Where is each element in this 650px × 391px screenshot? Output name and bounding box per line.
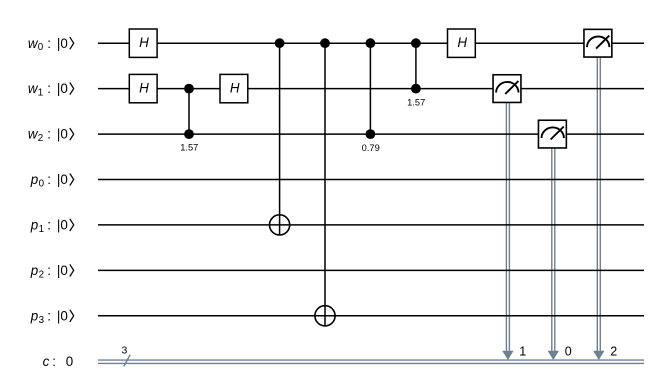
svg-text::: : xyxy=(52,354,56,369)
qubit wire p3 xyxy=(98,315,644,317)
label w0 : |0> xyxy=(28,36,74,53)
svg-text:|0: |0 xyxy=(57,218,68,233)
svg-text:0: 0 xyxy=(565,345,572,359)
H gate on w0 (column 8) xyxy=(448,29,476,57)
svg-text::: : xyxy=(47,127,51,142)
svg-text:c: c xyxy=(43,354,50,369)
CP gate w1-w2 (column 2): vertical connector xyxy=(188,89,190,135)
label p2 : |0> xyxy=(30,263,74,280)
svg-text::: : xyxy=(47,308,51,323)
svg-text:0: 0 xyxy=(38,42,44,53)
svg-text:p: p xyxy=(30,308,39,323)
svg-text:0: 0 xyxy=(66,354,73,369)
CP gate w0-w1 (column 7): vertical connector xyxy=(415,43,417,88)
svg-text::: : xyxy=(47,263,51,278)
svg-text:H: H xyxy=(139,35,149,50)
label p1 : |0> xyxy=(30,218,74,235)
CX gate w0-p3 (column 5): vertical connector xyxy=(324,43,326,326)
svg-text:p: p xyxy=(30,218,39,233)
qubit wire w0 xyxy=(98,42,644,44)
measure-to-classical double line (col 10) xyxy=(552,149,555,352)
arrow head into classical wire (col 11) xyxy=(593,351,604,360)
svg-text:|0: |0 xyxy=(57,127,68,142)
svg-text:1.57: 1.57 xyxy=(407,98,425,108)
svg-text:3: 3 xyxy=(121,344,127,356)
arrow head into classical wire (col 9) xyxy=(502,351,513,360)
svg-text:2: 2 xyxy=(38,133,43,144)
svg-text:1: 1 xyxy=(519,345,526,359)
label p0 : |0> xyxy=(30,172,74,189)
svg-text:|0: |0 xyxy=(57,36,68,51)
CP gate w0-w2 (column 6): vertical connector xyxy=(369,43,371,134)
svg-text:1: 1 xyxy=(38,88,43,99)
measure-to-classical double line (col 9) xyxy=(506,103,509,351)
CX target circle on p3 xyxy=(315,306,335,326)
qubit wire p2 xyxy=(98,269,644,271)
label p3 : |0> xyxy=(30,308,74,325)
svg-text::: : xyxy=(47,218,51,233)
svg-text:3: 3 xyxy=(39,315,45,326)
svg-text:1.57: 1.57 xyxy=(180,142,198,152)
control dot on w0 xyxy=(275,38,285,48)
svg-text:p: p xyxy=(30,263,39,278)
qubit wire p0 xyxy=(98,179,644,181)
label c : 0 xyxy=(43,354,74,369)
measurement gate on w0 (column 11) xyxy=(584,29,612,57)
arrow head into classical wire (col 10) xyxy=(548,351,559,360)
control dot on w0 xyxy=(320,38,330,48)
label w2 : |0> xyxy=(28,127,74,144)
svg-text::: : xyxy=(47,36,51,51)
control dot on w2 xyxy=(184,129,194,139)
svg-text:p: p xyxy=(30,172,39,187)
control dot on w1 xyxy=(411,84,421,94)
svg-text:H: H xyxy=(139,81,149,96)
classical bundle slash xyxy=(124,355,130,367)
H gate on w0 (column 1) xyxy=(129,29,157,57)
qubit wire w2 xyxy=(98,133,644,135)
control dot on w1 xyxy=(184,84,194,94)
svg-text:H: H xyxy=(230,81,240,96)
control dot on w0 xyxy=(411,38,421,48)
svg-text:2: 2 xyxy=(39,269,44,280)
svg-text:2: 2 xyxy=(610,345,617,359)
classical wire c (double line) xyxy=(98,360,644,363)
svg-text:0.79: 0.79 xyxy=(362,143,380,153)
H gate on w1 (column 3) xyxy=(220,74,248,102)
svg-text:|0: |0 xyxy=(57,172,68,187)
label w1 : |0> xyxy=(28,81,74,98)
svg-text:1: 1 xyxy=(39,224,44,235)
svg-text:|0: |0 xyxy=(57,263,68,278)
svg-text:H: H xyxy=(457,35,467,50)
H gate on w1 (column 1) xyxy=(129,74,157,102)
svg-text:|0: |0 xyxy=(57,308,68,323)
measurement gate on w1 (column 9) xyxy=(493,75,521,103)
measurement gate on w2 (column 10) xyxy=(538,120,566,148)
qubit wire p1 xyxy=(98,224,644,226)
svg-text::: : xyxy=(47,172,51,187)
CX target circle on p1 xyxy=(270,215,290,235)
svg-text:|0: |0 xyxy=(57,81,68,96)
CX gate w0-p1 (column 4): vertical connector xyxy=(279,43,281,235)
control dot on w2 xyxy=(366,129,376,139)
control dot on w0 xyxy=(366,38,376,48)
svg-text:0: 0 xyxy=(39,179,45,190)
qubit wire w1 xyxy=(98,88,644,90)
svg-text::: : xyxy=(47,81,51,96)
measure-to-classical double line (col 11) xyxy=(597,58,600,352)
